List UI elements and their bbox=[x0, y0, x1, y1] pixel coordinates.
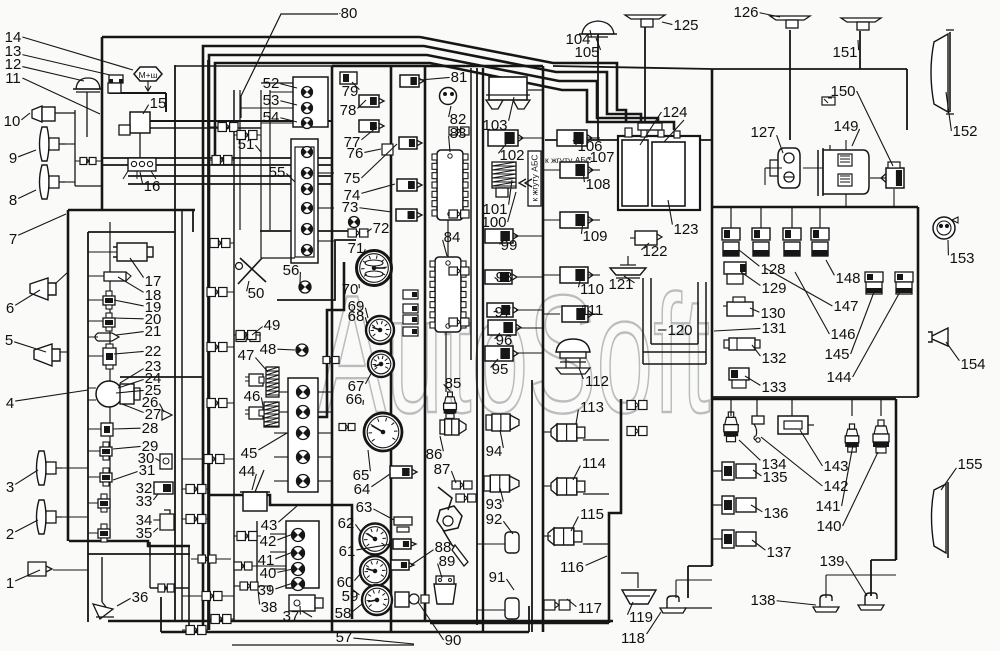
svg-text:43: 43 bbox=[261, 517, 278, 534]
svg-text:94: 94 bbox=[486, 443, 503, 460]
svg-text:109: 109 bbox=[582, 228, 607, 245]
svg-text:61: 61 bbox=[339, 543, 356, 560]
svg-text:128: 128 bbox=[760, 261, 785, 278]
svg-text:51: 51 bbox=[238, 136, 255, 153]
svg-text:114: 114 bbox=[582, 455, 606, 472]
svg-text:121: 121 bbox=[608, 276, 633, 293]
svg-text:50: 50 bbox=[248, 285, 265, 302]
svg-text:44: 44 bbox=[239, 463, 256, 480]
svg-text:103: 103 bbox=[482, 117, 507, 134]
svg-text:124: 124 bbox=[662, 104, 687, 121]
svg-text:110: 110 bbox=[580, 281, 604, 298]
svg-text:97: 97 bbox=[495, 304, 512, 321]
svg-text:148: 148 bbox=[835, 270, 860, 287]
svg-text:138: 138 bbox=[750, 592, 775, 609]
svg-text:152: 152 bbox=[952, 123, 977, 140]
svg-text:74: 74 bbox=[344, 187, 361, 204]
svg-text:142: 142 bbox=[823, 478, 848, 495]
svg-text:58: 58 bbox=[335, 605, 352, 622]
svg-text:139: 139 bbox=[819, 553, 844, 570]
svg-text:45: 45 bbox=[241, 445, 258, 462]
svg-text:135: 135 bbox=[762, 469, 787, 486]
svg-text:37: 37 bbox=[283, 608, 300, 625]
svg-text:5: 5 bbox=[5, 332, 13, 349]
svg-text:154: 154 bbox=[960, 356, 985, 373]
svg-text:92: 92 bbox=[486, 511, 503, 528]
svg-text:83: 83 bbox=[450, 125, 467, 142]
svg-text:6: 6 bbox=[6, 300, 14, 317]
svg-text:79: 79 bbox=[342, 83, 359, 100]
svg-text:62: 62 bbox=[338, 515, 355, 532]
svg-text:2: 2 bbox=[6, 526, 14, 543]
svg-text:98: 98 bbox=[496, 269, 513, 286]
svg-text:33: 33 bbox=[136, 493, 153, 510]
svg-text:36: 36 bbox=[132, 589, 149, 606]
svg-text:46: 46 bbox=[244, 388, 261, 405]
svg-text:125: 125 bbox=[673, 17, 698, 34]
svg-text:49: 49 bbox=[264, 317, 281, 334]
svg-text:48: 48 bbox=[260, 341, 277, 358]
svg-text:91: 91 bbox=[489, 569, 506, 586]
svg-text:99: 99 bbox=[501, 237, 518, 254]
svg-text:153: 153 bbox=[949, 250, 974, 267]
svg-text:107: 107 bbox=[589, 149, 614, 166]
svg-text:67: 67 bbox=[348, 378, 365, 395]
svg-text:15: 15 bbox=[150, 95, 167, 112]
svg-text:39: 39 bbox=[258, 582, 275, 599]
svg-text:60: 60 bbox=[337, 574, 354, 591]
svg-text:38: 38 bbox=[261, 599, 278, 616]
svg-text:80: 80 bbox=[341, 5, 358, 22]
svg-text:42: 42 bbox=[260, 533, 277, 550]
svg-text:65: 65 bbox=[353, 467, 370, 484]
svg-text:146: 146 bbox=[830, 326, 855, 343]
svg-text:149: 149 bbox=[833, 118, 858, 135]
svg-text:112: 112 bbox=[585, 373, 609, 390]
svg-text:143: 143 bbox=[823, 458, 848, 475]
svg-text:84: 84 bbox=[444, 229, 461, 246]
svg-text:102: 102 bbox=[499, 147, 524, 164]
svg-text:14: 14 bbox=[5, 29, 22, 46]
svg-text:145: 145 bbox=[824, 346, 849, 363]
svg-text:108: 108 bbox=[585, 176, 610, 193]
svg-text:93: 93 bbox=[486, 496, 503, 513]
svg-text:141: 141 bbox=[815, 498, 840, 515]
svg-text:126: 126 bbox=[733, 4, 758, 21]
svg-text:131: 131 bbox=[761, 320, 786, 337]
svg-text:96: 96 bbox=[496, 332, 513, 349]
svg-text:47: 47 bbox=[238, 347, 255, 364]
svg-text:41: 41 bbox=[258, 552, 275, 569]
svg-text:9: 9 bbox=[9, 150, 17, 167]
svg-text:52: 52 bbox=[263, 75, 280, 92]
svg-text:72: 72 bbox=[373, 220, 390, 237]
svg-text:21: 21 bbox=[145, 323, 162, 340]
svg-text:118: 118 bbox=[621, 630, 645, 647]
svg-text:95: 95 bbox=[492, 361, 509, 378]
svg-text:150: 150 bbox=[830, 83, 855, 100]
svg-text:54: 54 bbox=[263, 109, 280, 126]
svg-text:3: 3 bbox=[6, 479, 14, 496]
svg-text:87: 87 bbox=[434, 461, 451, 478]
svg-text:101: 101 bbox=[482, 201, 507, 218]
svg-text:90: 90 bbox=[445, 632, 462, 649]
svg-text:129: 129 bbox=[761, 280, 786, 297]
svg-text:120: 120 bbox=[667, 322, 692, 339]
svg-text:16: 16 bbox=[144, 178, 161, 195]
svg-text:57: 57 bbox=[336, 629, 353, 646]
svg-text:127: 127 bbox=[750, 124, 775, 141]
svg-text:136: 136 bbox=[763, 505, 788, 522]
svg-text:53: 53 bbox=[263, 92, 280, 109]
svg-text:70: 70 bbox=[342, 281, 359, 298]
svg-text:113: 113 bbox=[580, 399, 604, 416]
svg-text:137: 137 bbox=[766, 544, 791, 561]
svg-text:31: 31 bbox=[139, 462, 156, 479]
svg-text:28: 28 bbox=[142, 420, 159, 437]
svg-text:М+ш: М+ш bbox=[139, 70, 158, 80]
svg-text:147: 147 bbox=[833, 298, 858, 315]
svg-text:144: 144 bbox=[826, 369, 851, 386]
svg-text:8: 8 bbox=[9, 192, 17, 209]
svg-text:71: 71 bbox=[348, 240, 365, 257]
svg-text:77: 77 bbox=[344, 134, 361, 151]
svg-text:75: 75 bbox=[344, 170, 361, 187]
svg-text:69: 69 bbox=[348, 298, 365, 315]
svg-text:151: 151 bbox=[832, 44, 857, 61]
svg-text:63: 63 bbox=[356, 499, 373, 516]
svg-text:81: 81 bbox=[451, 69, 468, 86]
svg-text:89: 89 bbox=[439, 553, 456, 570]
svg-text:116: 116 bbox=[560, 559, 584, 576]
svg-text:122: 122 bbox=[642, 243, 667, 260]
svg-text:117: 117 bbox=[578, 600, 602, 617]
svg-text:10: 10 bbox=[4, 113, 21, 130]
svg-text:35: 35 bbox=[136, 525, 153, 542]
svg-text:140: 140 bbox=[816, 518, 841, 535]
svg-text:123: 123 bbox=[673, 221, 698, 238]
svg-text:111: 111 bbox=[581, 302, 604, 319]
svg-text:155: 155 bbox=[957, 456, 982, 473]
svg-text:119: 119 bbox=[629, 609, 653, 626]
svg-text:132: 132 bbox=[761, 350, 786, 367]
svg-text:1: 1 bbox=[6, 575, 14, 592]
svg-text:7: 7 bbox=[9, 231, 17, 248]
svg-text:105: 105 bbox=[574, 44, 599, 61]
svg-text:к жгуту АБС: к жгуту АБС bbox=[530, 154, 540, 201]
svg-text:133: 133 bbox=[761, 379, 786, 396]
svg-text:56: 56 bbox=[283, 262, 300, 279]
svg-text:85: 85 bbox=[445, 375, 462, 392]
svg-text:55: 55 bbox=[269, 164, 286, 181]
svg-text:4: 4 bbox=[6, 395, 14, 412]
svg-text:78: 78 bbox=[340, 102, 357, 119]
svg-text:115: 115 bbox=[580, 506, 604, 523]
